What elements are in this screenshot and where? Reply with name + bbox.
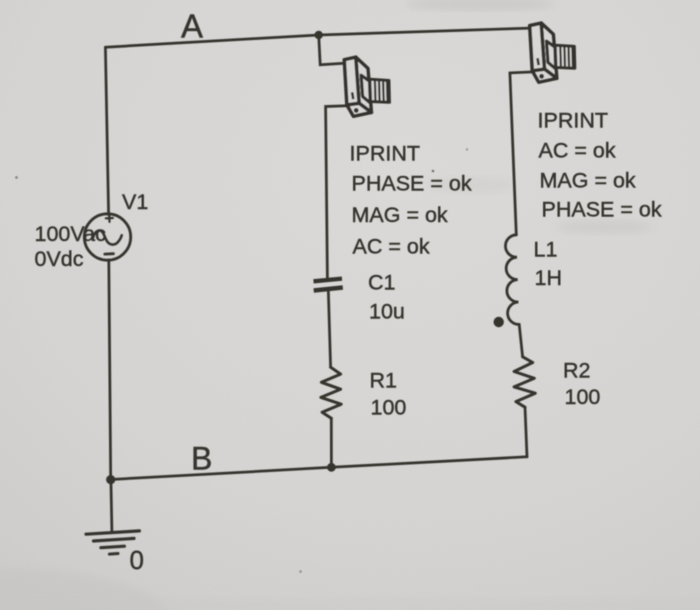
wire: R1 to bottom junction <box>330 418 333 467</box>
svg-text:10u: 10u <box>369 300 405 324</box>
svg-text:PHASE = ok: PHASE = ok <box>542 198 662 222</box>
svg-text:1H: 1H <box>535 266 562 290</box>
svg-text:AC = ok: AC = ok <box>539 139 616 163</box>
wire: IPRINT2 bottom to inductor <box>510 72 533 235</box>
faint smudge right middle <box>556 220 652 234</box>
capacitor C1 plates <box>314 279 343 291</box>
IPRINT component U1 icon (middle) <box>344 57 389 116</box>
junction node A dot <box>315 31 323 39</box>
svg-text:V1: V1 <box>122 190 148 214</box>
voltage source V1 circle <box>84 214 130 260</box>
dust speck <box>432 170 435 173</box>
svg-text:100: 100 <box>371 396 407 420</box>
wire: top wire A left segment <box>105 35 318 47</box>
wire: ground stem <box>111 480 112 532</box>
wire: junction A to IPRINT1 <box>319 35 345 65</box>
svg-text:IPRINT: IPRINT <box>350 142 420 166</box>
resistor R2 zigzag <box>514 357 535 407</box>
inductor L1 coil <box>505 235 519 325</box>
svg-text:C1: C1 <box>368 271 395 295</box>
svg-text:100Vac: 100Vac <box>35 222 107 246</box>
V1 minus sign <box>105 252 114 255</box>
svg-text:PHASE = ok: PHASE = ok <box>352 172 472 196</box>
IPRINT component U2 icon (top right) <box>530 23 575 82</box>
svg-text:AC = ok: AC = ok <box>353 235 430 259</box>
svg-text:0Vdc: 0Vdc <box>35 247 84 271</box>
svg-text:R2: R2 <box>563 359 590 383</box>
svg-text:MAG = ok: MAG = ok <box>352 203 448 227</box>
wire: left vertical (top) <box>105 47 108 214</box>
inductor phase dot <box>494 317 504 327</box>
V1 sine squiggle <box>93 230 122 244</box>
svg-text:B: B <box>191 441 212 477</box>
wire: R2 to bottom right corner <box>525 407 527 457</box>
svg-text:A: A <box>181 8 203 45</box>
ground symbol <box>86 531 139 554</box>
wire: top wire right segment to IPRINT2 <box>319 28 530 35</box>
svg-text:IPRINT: IPRINT <box>538 109 608 133</box>
junction node B dot <box>327 463 336 472</box>
resistor R1 zigzag <box>321 367 341 418</box>
wire: bottom wire B left segment <box>111 467 332 479</box>
wire: IPRINT1 bottom to capacitor <box>326 106 348 278</box>
wire: bottom wire right segment <box>331 457 527 468</box>
junction ground dot <box>106 475 115 484</box>
svg-text:R1: R1 <box>370 369 397 393</box>
V1 plus sign <box>106 215 113 222</box>
darker lower-left corner <box>0 568 170 610</box>
svg-text:0: 0 <box>130 545 144 575</box>
svg-text:MAG = ok: MAG = ok <box>540 169 636 193</box>
svg-text:100: 100 <box>565 385 601 409</box>
wire: left vertical (below V1) <box>109 260 111 480</box>
faint bleedthrough smudge top <box>405 0 555 11</box>
svg-text:L1: L1 <box>534 238 558 262</box>
wire: L1 to R2 <box>519 324 522 356</box>
wire: capacitor to R1 <box>328 290 330 368</box>
